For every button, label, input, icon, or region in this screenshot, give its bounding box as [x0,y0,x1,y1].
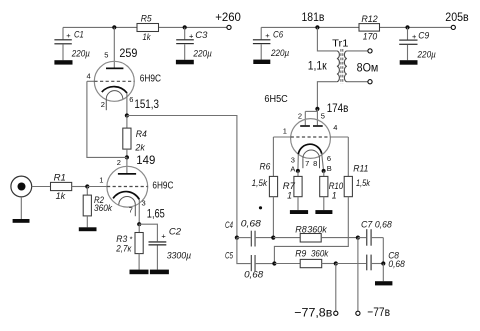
triode V1b 6Н9С lower [107,157,148,216]
ground R10 [315,210,332,214]
svg-text:170: 170 [363,32,378,43]
wire bias -77,8в [335,264,337,312]
svg-text:C9: C9 [418,30,430,41]
wire primary top [317,27,337,51]
wire SRPP output [127,116,237,238]
svg-text:C2: C2 [169,226,182,237]
svg-text:+: + [189,32,194,41]
junction dot spare [259,206,262,209]
terminal 205в [445,10,468,29]
wire secondary top terminal [347,49,372,53]
wire R11 to bias node [274,197,348,264]
svg-text:1,5k: 1,5k [252,178,269,189]
node 1,65 [137,206,165,226]
resistor R2 [83,187,113,228]
svg-text:1k: 1k [143,32,152,43]
svg-text:1,65: 1,65 [147,206,165,220]
svg-text:220µ: 220µ [417,50,437,61]
ground input jack [13,219,30,223]
svg-text:6Н5С: 6Н5С [264,94,287,105]
svg-text:1: 1 [332,191,337,202]
ground C9 [400,60,418,64]
wire grid V1b [87,186,107,188]
svg-text:1: 1 [287,191,292,202]
svg-text:181в: 181в [302,10,325,24]
ground C2 [150,270,169,275]
capacitor C3 [176,27,212,59]
svg-text:220µ: 220µ [270,48,289,59]
capacitor C1 [54,27,90,60]
svg-text:+260: +260 [215,10,241,24]
node C8 ground junction [381,261,385,281]
junction C3 [183,25,187,29]
tube V2 6Н5С [273,109,348,168]
svg-text:R11: R11 [353,164,368,175]
svg-text:R9: R9 [295,249,307,260]
svg-text:3300µ: 3300µ [167,250,192,261]
svg-text:6Н9С: 6Н9С [140,74,161,85]
svg-text:C6: C6 [273,29,284,40]
svg-text:R8: R8 [295,224,307,235]
svg-text:6: 6 [129,95,133,104]
wire C7 to ground node [382,238,384,264]
wire grid2 to R11 [347,137,349,176]
svg-text:7: 7 [129,205,133,214]
node B [322,164,332,173]
svg-text:0,68: 0,68 [375,220,393,231]
svg-text:5: 5 [104,51,108,60]
capacitor C2 [149,226,192,269]
svg-text:2: 2 [298,111,302,120]
resistor R8 [273,224,358,242]
junction C9 [405,25,409,29]
svg-text:1: 1 [283,126,287,135]
capacitor C9 [399,27,436,60]
resistor R4 [123,116,147,158]
svg-text:0,68: 0,68 [388,259,405,270]
wire primary bottom [317,82,337,109]
wire to C2 [139,224,157,241]
resistor R3 [115,224,143,269]
ground C1 [54,60,72,64]
node A [290,164,300,173]
svg-text:1: 1 [99,176,103,185]
node 149 [125,153,156,167]
svg-text:6: 6 [327,154,331,163]
ground C6 [253,60,270,64]
svg-text:6Н9С: 6Н9С [152,181,173,192]
terminal +260 [215,10,241,29]
junction transformer tap [315,25,319,29]
transformer core [341,49,343,84]
svg-text:259: 259 [119,46,137,60]
wire cathode B [322,154,324,171]
capacitor C6 [253,27,290,59]
svg-text:360k: 360k [311,249,329,260]
svg-text:C5: C5 [225,251,233,262]
svg-text:5: 5 [321,111,325,120]
svg-text:−77,8в: −77,8в [294,306,332,320]
svg-text:220µ: 220µ [71,49,90,60]
svg-text:A: A [290,164,295,173]
svg-text:0,68: 0,68 [241,218,262,229]
svg-text:149: 149 [136,153,155,167]
wire B+ right rail [261,26,451,28]
resistor R6 [252,161,278,196]
node 151,3 [125,97,159,118]
node bias -77в [356,236,360,240]
svg-text:1k: 1k [56,191,67,202]
svg-text:0,68: 0,68 [244,270,264,281]
wire C5 feed [237,238,251,264]
junction anode V1a [112,25,116,29]
wire R6 to bias node [272,197,274,238]
input jack X1 [11,176,32,219]
resistor R11 [344,164,371,197]
terminal -77в [356,305,390,319]
svg-text:8: 8 [313,159,317,168]
svg-text:*: * [130,234,133,243]
resistor R9 [274,249,335,268]
transformer Tr1 primary [308,39,349,82]
wire secondary bottom terminal [347,80,372,84]
svg-text:151,3: 151,3 [134,97,159,111]
svg-text:R1: R1 [54,173,66,184]
svg-text:360k: 360k [94,203,113,214]
svg-text:B: B [327,164,332,173]
wire cathode A [297,154,299,171]
node grid V1b [85,184,89,188]
svg-text:+: + [412,32,417,41]
wire bias -77в [357,238,359,312]
node 174в [315,101,348,115]
node C4 input [235,236,239,240]
wire B+ left rail [63,26,227,28]
svg-text:4: 4 [87,72,91,81]
ground R2 [79,227,97,231]
svg-text:1,1к: 1,1к [308,58,328,72]
svg-text:220µ: 220µ [193,49,213,60]
wire cathode V1a [126,93,128,116]
svg-text:3: 3 [142,199,146,208]
svg-text:7: 7 [305,159,309,168]
svg-text:+: + [265,31,270,40]
wire input to R1 [32,186,51,188]
svg-text:4: 4 [333,123,337,132]
triode V1a 6Н9С upper [87,27,134,110]
svg-text:R6: R6 [260,161,271,172]
wire grid V1a to anode V1b [87,81,127,157]
ground C8 [375,281,392,285]
svg-text:360k: 360k [307,224,328,235]
svg-text:C1: C1 [74,29,84,40]
svg-text:2: 2 [101,100,105,109]
ground R3 [130,270,149,275]
resistor R10 [320,171,344,210]
svg-text:+: + [161,231,166,240]
svg-text:R12: R12 [361,14,378,25]
ground R7 [290,210,308,214]
svg-text:+: + [66,31,71,40]
wire grid1 to R6 [272,137,274,176]
node grid2 bias [272,261,276,265]
svg-text:Tr1: Tr1 [332,39,349,50]
wire cathode V1b [138,199,140,224]
svg-text:2,7к: 2,7к [115,243,131,254]
svg-text:−77в: −77в [367,305,390,319]
node grid1 bias [271,236,275,240]
svg-text:3: 3 [291,155,295,164]
svg-text:1,5k: 1,5k [356,178,371,189]
svg-text:174в: 174в [327,101,349,115]
svg-text:C3: C3 [195,30,208,41]
svg-text:C4: C4 [225,220,233,231]
resistor R5 [137,13,159,43]
svg-text:R4: R4 [136,129,147,140]
resistor R7 [283,171,302,210]
ground C3 [176,60,194,65]
resistor R12 [359,14,380,43]
resistor R1 [51,173,88,202]
svg-text:2: 2 [117,158,121,167]
svg-text:R5: R5 [141,13,153,24]
svg-text:C7: C7 [361,220,373,231]
capacitor C5 [225,251,274,281]
terminal -77,8в [294,306,338,320]
capacitor C7 [358,220,393,246]
capacitor C8 [336,250,406,270]
capacitor C4 [225,218,273,246]
transformer Tr1 secondary [344,51,378,82]
svg-text:205в: 205в [445,10,468,24]
svg-text:8Ом: 8Ом [357,61,379,75]
node bias -77,8в [334,261,338,265]
